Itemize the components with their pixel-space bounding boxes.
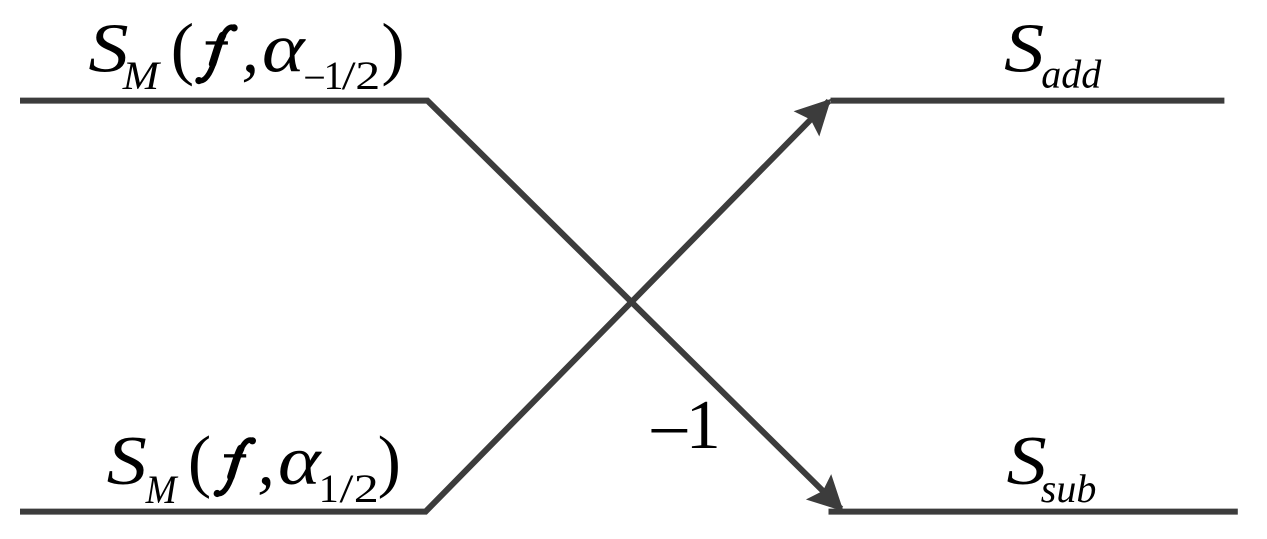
svg-text:(: ( [171, 10, 194, 87]
svg-text:2: 2 [354, 467, 379, 511]
svg-text:,: , [242, 10, 260, 87]
wire: top-right output line [831, 98, 1225, 104]
gain label: -1 on the down-crossing branch [648, 387, 721, 469]
label: S_sub bottom-right output [1006, 423, 1096, 511]
arrowhead: down-right (end of -1 branch) [806, 474, 844, 511]
svg-text:add: add [1041, 52, 1102, 97]
svg-text:sub: sub [1041, 466, 1097, 511]
svg-text:α: α [262, 9, 307, 87]
label: S_add top-right output [1004, 10, 1102, 96]
svg-text:S: S [107, 423, 147, 500]
arrowhead: up-right (end of adder branch) [794, 99, 831, 137]
svg-text:−: − [303, 55, 326, 100]
svg-text:2: 2 [355, 54, 380, 98]
svg-text:M: M [122, 55, 162, 99]
svg-text:−: − [648, 391, 691, 469]
label: S_M(f, alpha_1/2) bottom-left input [107, 422, 401, 512]
svg-text:): ) [381, 10, 404, 87]
svg-text:(: ( [188, 423, 211, 500]
svg-text:/: / [340, 467, 354, 511]
svg-text:1: 1 [319, 466, 339, 511]
svg-text:M: M [145, 469, 179, 512]
wire: top-left input line with bend into crossing branch [20, 101, 841, 509]
svg-text:α: α [278, 422, 323, 500]
label: S_M(f, alpha_-1/2) top-left input [88, 9, 404, 99]
svg-text:): ) [378, 423, 401, 500]
svg-text:/: / [342, 54, 356, 98]
svg-text:1: 1 [324, 53, 344, 98]
svg-text:1: 1 [686, 387, 721, 464]
wire: bottom-left input line with bend into crossing branch [20, 101, 829, 512]
wire: bottom-right output line [829, 509, 1238, 515]
svg-text:,: , [257, 423, 275, 500]
svg-text:S: S [1004, 10, 1044, 87]
